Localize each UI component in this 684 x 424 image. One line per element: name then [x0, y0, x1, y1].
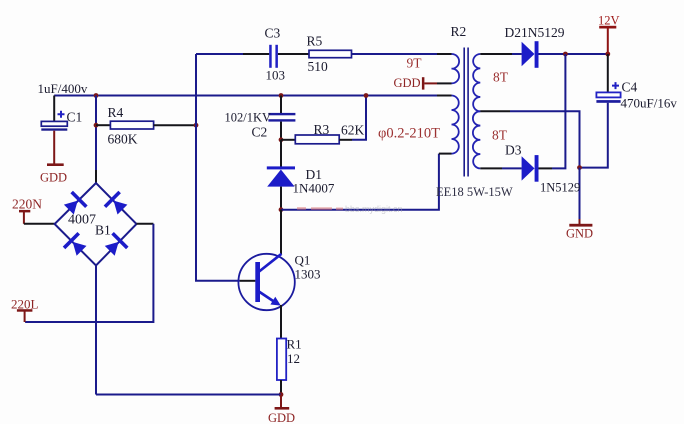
svg-text:GDD: GDD: [394, 76, 421, 90]
capacitor C3: [265, 26, 286, 83]
wire bridge right to 220L: [25, 224, 153, 322]
svg-text:103: 103: [266, 68, 286, 83]
svg-text:R4: R4: [108, 105, 124, 120]
wire rail corner down to C1: [53, 96, 55, 122]
svg-text:1N5129: 1N5129: [540, 181, 580, 195]
svg-text:220N: 220N: [12, 197, 42, 212]
capacitor C4: [596, 80, 677, 111]
wire Q1 collector pin: [280, 210, 282, 254]
resistor R5: [307, 34, 352, 75]
resistor R4: [108, 105, 154, 147]
ground GND: [566, 224, 593, 241]
wire D1 top pin: [280, 140, 282, 167]
wire C4 bottom to GND node: [580, 103, 608, 168]
wire bridge right pin: [137, 223, 154, 225]
wire secondary center tap: [480, 110, 510, 112]
svg-text:R1: R1: [287, 337, 302, 352]
svg-text:102/1KV: 102/1KV: [225, 111, 272, 125]
svg-text:φ0.2-210T: φ0.2-210T: [378, 126, 440, 142]
wire secondary top pin to D2: [480, 53, 512, 55]
svg-text:EE18 5W-15W: EE18 5W-15W: [436, 185, 513, 199]
node junction R1/bottom rail: [279, 392, 284, 397]
diode B1 top-right: [104, 191, 130, 217]
wire R3 left pin: [281, 139, 295, 141]
svg-text:510: 510: [308, 59, 329, 74]
wire Q1 emitter pin: [280, 305, 282, 339]
wire vertical x=196 top rail to Q1 base: [196, 54, 240, 281]
wire R4 right pin to vertical: [154, 124, 196, 126]
wire bridge bottom to bottom rail: [95, 266, 97, 395]
terminal 220N: [12, 197, 42, 224]
wire main rail y=95.5: [54, 95, 437, 97]
node junction rail/bridge: [94, 93, 99, 98]
wire top rail y=54 from node A to C3: [196, 53, 243, 55]
svg-text:C1: C1: [67, 110, 83, 125]
svg-text:R5: R5: [307, 34, 323, 49]
secondary bottom winding 8T: [473, 111, 480, 168]
wire D1 bottom pin: [280, 187, 282, 210]
wire to D2 anode: [512, 53, 522, 55]
ground GDD under C1: [40, 163, 67, 184]
svg-text:8T: 8T: [492, 128, 508, 143]
svg-text:12: 12: [287, 351, 300, 366]
wire D2 cathode to 12V node: [539, 53, 608, 55]
wire secondary bottom pin to D3: [480, 167, 502, 169]
svg-text:12V: 12V: [598, 14, 620, 28]
svg-text:8T: 8T: [493, 70, 509, 85]
wire R3 right pin: [339, 139, 352, 141]
bridge B1 frame: [55, 183, 137, 266]
node junction D1/feedback wire: [279, 207, 284, 212]
wire center tap to GND vertical: [510, 111, 580, 167]
svg-text:9T: 9T: [407, 56, 423, 71]
svg-text:1303: 1303: [295, 267, 321, 282]
wire feedback horizontal to transformer: [281, 154, 439, 210]
diode B1 bottom-right: [102, 232, 128, 258]
wire GND stem: [579, 168, 581, 219]
transformer R2: [378, 24, 513, 199]
svg-text:470uF/16v: 470uF/16v: [621, 96, 678, 111]
wire C4 top pin: [607, 54, 609, 92]
node junction R4 right: [194, 123, 199, 128]
node junction D2/D3: [563, 52, 568, 57]
node junction GND: [577, 165, 582, 170]
svg-text:B1: B1: [95, 223, 111, 238]
diode D3: [505, 143, 580, 195]
wire primary lower top pin: [437, 95, 452, 97]
wire Q1 base pin: [240, 280, 255, 282]
svg-text:D21N5129: D21N5129: [505, 25, 565, 40]
wire R3 to rail vertical: [352, 96, 366, 140]
svg-text:1N4007: 1N4007: [293, 181, 335, 196]
svg-text:R3: R3: [314, 122, 330, 137]
wire 220N to bridge left: [24, 223, 55, 225]
node junction rail/C2: [279, 93, 284, 98]
svg-text:C3: C3: [265, 26, 281, 41]
svg-text:Q1: Q1: [295, 253, 311, 268]
diode B1 bottom-left: [63, 232, 89, 258]
secondary top winding 8T: [473, 54, 480, 111]
wire bridge top pin black: [95, 170, 97, 183]
node junction C2/R3/D1: [279, 137, 284, 142]
wire C3 left pin: [243, 53, 269, 55]
transistor Q1: [238, 253, 320, 311]
node junction 12V/C4: [605, 52, 610, 57]
wire C2 bottom pin: [280, 122, 282, 140]
wire D3 cathode pin: [539, 167, 553, 169]
terminal 12V: [598, 14, 620, 55]
diode B1 top-left: [61, 191, 87, 217]
core: [464, 48, 468, 177]
diode D1: [267, 166, 335, 195]
wire C2 top pin: [280, 96, 282, 114]
wire primary lower bottom pin: [439, 153, 452, 155]
resistor R1: [277, 337, 302, 381]
primary top winding 9T: [452, 54, 460, 83]
wire R4 left pin: [96, 124, 110, 126]
svg-text:D3: D3: [505, 143, 522, 158]
wire ground stem: [280, 395, 282, 408]
wire bridge top branch vertical: [95, 96, 97, 171]
svg-text:C2: C2: [252, 125, 268, 140]
wire R5 to transformer primary: [352, 53, 438, 55]
svg-text:62K: 62K: [341, 123, 365, 138]
watermark dashes: [297, 204, 403, 214]
wire primary tap pin: [437, 82, 452, 84]
wire D3 to 12V rail vertical: [552, 54, 565, 168]
resistor R3: [295, 122, 364, 144]
wire transformer primary top pin: [437, 53, 452, 55]
svg-text:C4: C4: [622, 80, 638, 95]
svg-text:1uF/400v: 1uF/400v: [38, 81, 88, 96]
node junction R4 left: [94, 123, 99, 128]
svg-text:680K: 680K: [108, 132, 138, 147]
capacitor C1: [38, 81, 88, 131]
wire bottom rail: [96, 394, 281, 396]
svg-text:bbs.mydigit.cn: bbs.mydigit.cn: [345, 204, 403, 214]
svg-text:4007: 4007: [68, 213, 96, 228]
diode D2: [505, 25, 565, 68]
svg-text:GDD: GDD: [268, 411, 295, 424]
wire C1 to ground: [53, 131, 55, 164]
wire R1 bottom pin: [280, 380, 282, 395]
ground GDD primary tap: [394, 76, 438, 90]
primary lower winding: [452, 96, 459, 154]
wire C3 to R5: [278, 53, 309, 55]
svg-text:R2: R2: [451, 24, 467, 39]
svg-text:GND: GND: [566, 227, 593, 241]
svg-text:GDD: GDD: [40, 171, 67, 185]
node junction rail/R3: [364, 93, 369, 98]
terminal 220L: [11, 297, 39, 323]
capacitor C2: [225, 111, 296, 140]
ground GDD under R1: [268, 407, 295, 424]
